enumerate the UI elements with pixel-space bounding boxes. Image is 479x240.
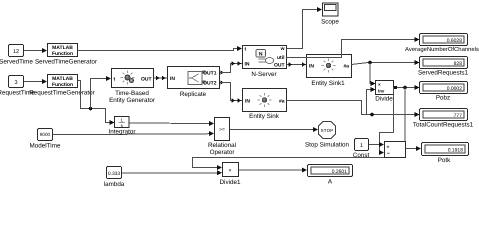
svg-text:RequestTimeGenerator: RequestTimeGenerator <box>29 90 95 97</box>
svg-text:Function: Function <box>52 51 73 57</box>
display Potk <box>422 143 469 165</box>
Sum (subtract) <box>385 142 406 158</box>
svg-text:0.6028: 0.6028 <box>447 38 463 44</box>
Entity Sink1 <box>307 55 352 88</box>
svg-text:×: × <box>228 168 231 174</box>
wire Entity Sink1 #a to ServedRequests1 with junction <box>352 60 420 65</box>
svg-text:Replicate: Replicate <box>180 91 207 98</box>
svg-text:+: + <box>387 145 390 151</box>
display TotalCountRequests1 <box>413 109 474 129</box>
Relational Operator <box>208 118 236 157</box>
svg-text:3: 3 <box>14 80 17 86</box>
svg-text:0.2601: 0.2601 <box>332 169 348 175</box>
svg-text:Entity Sink: Entity Sink <box>249 113 280 120</box>
svg-text:Entity Sink1: Entity Sink1 <box>311 80 345 87</box>
display AverageNumberOfChannels <box>405 34 479 54</box>
wire N-Server w to Scope <box>287 7 323 49</box>
wire junction up to Time-Based Entity Generator t <box>91 76 112 109</box>
svg-text:w: w <box>280 46 285 52</box>
Scope <box>321 3 339 26</box>
svg-text:1: 1 <box>360 143 363 149</box>
svg-text:AverageNumberOfChannels: AverageNumberOfChannels <box>405 46 479 53</box>
wire up from TotalCount line to Divide Inv input <box>367 87 376 115</box>
svg-text:IN: IN <box>309 64 314 70</box>
Entity Sink <box>243 89 287 121</box>
entity wire Replicate OUT1 to N-Server IN <box>220 61 242 72</box>
svg-text:N-Server: N-Server <box>251 71 276 78</box>
wire Const to Sum plus input <box>369 142 385 147</box>
svg-text:8000: 8000 <box>40 132 51 137</box>
svg-text:N: N <box>259 52 263 58</box>
svg-text:Integrator: Integrator <box>109 129 136 136</box>
junction on RequestTime wire <box>89 107 93 111</box>
svg-text:util: util <box>277 55 285 61</box>
Integrator <box>109 117 136 136</box>
wire ModelTime to Relational Operator in2 <box>53 131 215 136</box>
Divide <box>375 81 393 103</box>
wire Divide1 to display A <box>239 168 308 173</box>
svg-text:OUT: OUT <box>141 77 152 83</box>
svg-text:×: × <box>378 82 381 87</box>
constant ServedTime "12" <box>0 45 33 66</box>
entity wire N-Server OUT to Entity Sink1 IN <box>287 62 307 66</box>
wire bottom rail to Divide1 first input <box>193 158 406 171</box>
entity wire Replicate OUT2 to Entity Sink IN <box>220 83 242 103</box>
svg-text:TotalCountRequests1: TotalCountRequests1 <box>413 122 474 129</box>
svg-text:0.0002: 0.0002 <box>447 86 463 92</box>
svg-text:Function: Function <box>52 82 73 88</box>
svg-text:OUT: OUT <box>274 63 285 69</box>
display A <box>308 165 353 186</box>
svg-text:ServedTime: ServedTime <box>0 59 33 66</box>
svg-text:Divide1: Divide1 <box>220 179 241 186</box>
MATLAB function RequestTimeGenerator <box>29 75 95 97</box>
svg-text:0.333: 0.333 <box>108 171 121 177</box>
display Pobz <box>420 82 468 102</box>
constant lambda "0.333" <box>104 167 125 189</box>
svg-text:−: − <box>387 151 390 157</box>
svg-text:Divide: Divide <box>375 96 393 103</box>
svg-text:Stop Simulation: Stop Simulation <box>305 142 350 149</box>
svg-text:777: 777 <box>454 113 463 119</box>
svg-text:#a: #a <box>343 64 349 70</box>
svg-text:#a: #a <box>279 99 285 105</box>
svg-text:Scope: Scope <box>321 19 339 26</box>
svg-text:ServedTimeGenerator: ServedTimeGenerator <box>35 59 97 66</box>
Stop Simulation octagon <box>305 122 350 149</box>
svg-text:ModelTime: ModelTime <box>30 143 61 150</box>
svg-text:Potk: Potk <box>438 157 451 164</box>
wire N-Server util up to AverageNumberOfChannels <box>287 37 420 58</box>
wire Relational Operator to Stop Simulation <box>230 127 319 132</box>
svg-text:STOP: STOP <box>321 128 334 133</box>
wire RequestTimeGenerator down to junction and Integrator <box>78 81 115 126</box>
svg-text:828: 828 <box>454 61 463 67</box>
svg-text:lambda: lambda <box>104 181 125 188</box>
Time-Based Entity Generator <box>109 69 155 105</box>
svg-text:0.1918: 0.1918 <box>448 147 464 153</box>
wire Sum output to Potk <box>406 146 422 151</box>
MATLAB function ServedTimeGenerator <box>35 44 97 66</box>
svg-text:Entity Generator: Entity Generator <box>109 97 155 104</box>
Divide1 <box>220 163 241 187</box>
Replicate <box>168 67 225 99</box>
svg-text:Relational: Relational <box>208 142 236 149</box>
wire lambda to Divide1 in2 <box>122 170 223 175</box>
svg-text:Const: Const <box>353 152 370 159</box>
svg-text:Inv: Inv <box>378 89 385 94</box>
constant ModelTime "8000" <box>30 129 61 150</box>
wire Integrator to Relational Operator in1 <box>129 121 214 126</box>
svg-text:Pobz: Pobz <box>436 95 450 102</box>
svg-text:IN: IN <box>170 76 175 82</box>
entity wire TBEG OUT to Replicate IN <box>154 76 168 80</box>
wire junction down to Divide x input <box>370 63 376 87</box>
svg-text:IN: IN <box>245 99 250 105</box>
wire Divide output to Pobz with junction <box>394 85 420 90</box>
display ServedRequests1 <box>418 57 469 77</box>
wire ServedTime to ServedTimeGenerator <box>24 48 47 53</box>
constant RequestTime "3" <box>0 76 35 97</box>
svg-text:12: 12 <box>13 49 19 55</box>
wire Divide output branch down to Sum minus input <box>379 88 394 156</box>
N-Server <box>243 46 287 79</box>
wire ServedTimeGenerator to N-Server t <box>78 46 243 51</box>
svg-text:ServedRequests1: ServedRequests1 <box>418 70 469 77</box>
svg-text:IN: IN <box>245 62 250 68</box>
svg-text:Operator: Operator <box>210 149 235 156</box>
constant Const "1" <box>353 139 370 160</box>
wire Entity Sink #a to TotalCountRequests1 with junction <box>287 101 420 118</box>
svg-text:Time-Based: Time-Based <box>115 90 149 97</box>
wire junction down along Sum right edge to bottom rail <box>404 88 406 158</box>
svg-text:>=: >= <box>219 127 225 133</box>
wire RequestTime to RequestTimeGenerator <box>24 79 47 84</box>
